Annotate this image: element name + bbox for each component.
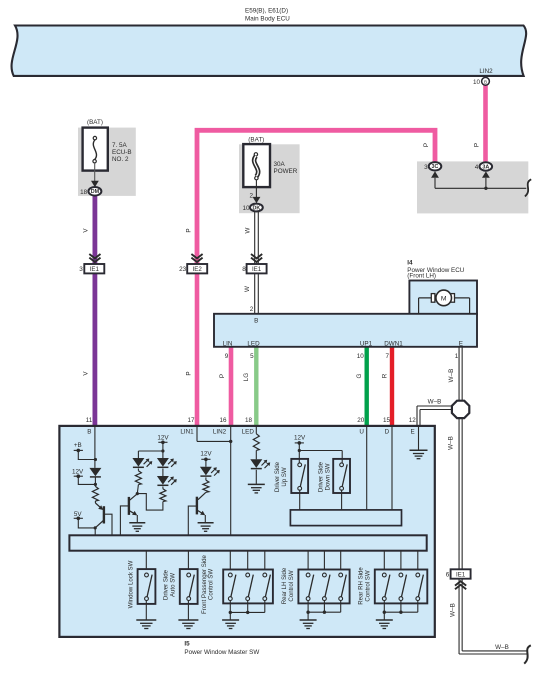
svg-text:17: 17	[187, 417, 195, 424]
svg-text:18: 18	[80, 189, 88, 196]
svg-text:B: B	[87, 428, 91, 435]
svg-text:3C: 3C	[432, 164, 439, 170]
svg-text:10: 10	[242, 205, 250, 212]
svg-text:P: P	[186, 371, 193, 375]
svg-text:P: P	[186, 228, 193, 232]
svg-text:12V: 12V	[200, 450, 212, 457]
svg-text:7: 7	[385, 353, 389, 360]
svg-text:E: E	[459, 340, 463, 347]
svg-text:DWN1: DWN1	[384, 340, 403, 347]
svg-text:LED: LED	[247, 340, 260, 347]
svg-text:POWER: POWER	[274, 168, 298, 175]
svg-text:LED: LED	[242, 429, 255, 436]
svg-text:W–B: W–B	[428, 398, 442, 405]
svg-text:(Front LH): (Front LH)	[407, 272, 436, 279]
svg-text:IE1: IE1	[252, 266, 262, 273]
svg-text:R: R	[381, 373, 388, 378]
svg-text:Auto SW: Auto SW	[169, 573, 176, 597]
svg-text:D: D	[385, 428, 390, 435]
svg-text:12V: 12V	[294, 435, 306, 442]
svg-text:Control SW: Control SW	[364, 570, 371, 601]
svg-text:E59(B), E61(D): E59(B), E61(D)	[245, 7, 288, 14]
svg-text:10: 10	[473, 79, 481, 86]
svg-text:I4: I4	[407, 260, 413, 267]
svg-text:10: 10	[357, 353, 365, 360]
svg-text:LIN1: LIN1	[180, 428, 194, 435]
svg-text:LIN2: LIN2	[479, 68, 493, 75]
svg-text:20: 20	[357, 417, 365, 424]
svg-text:I5: I5	[184, 640, 190, 647]
svg-text:LG: LG	[243, 373, 250, 382]
svg-text:(BAT): (BAT)	[87, 119, 103, 126]
svg-text:Main Body ECU: Main Body ECU	[245, 15, 290, 22]
svg-text:B: B	[254, 318, 258, 325]
svg-text:4: 4	[475, 164, 479, 171]
svg-text:LIN2: LIN2	[213, 428, 227, 435]
svg-text:Up SW: Up SW	[281, 467, 288, 487]
svg-text:W: W	[244, 227, 251, 233]
svg-text:3A: 3A	[482, 164, 489, 170]
svg-text:5: 5	[250, 353, 254, 360]
svg-text:1: 1	[455, 353, 459, 360]
svg-text:30A: 30A	[274, 161, 286, 168]
svg-text:12V: 12V	[157, 434, 169, 441]
svg-text:DM: DM	[91, 189, 100, 195]
svg-text:NO. 2: NO. 2	[112, 156, 129, 163]
svg-text:Control SW: Control SW	[288, 570, 295, 601]
svg-text:P: P	[474, 143, 481, 147]
svg-text:E: E	[410, 428, 414, 435]
svg-text:Window Lock SW: Window Lock SW	[127, 560, 134, 608]
svg-text:12V: 12V	[72, 468, 84, 475]
svg-text:9: 9	[225, 353, 229, 360]
svg-text:UP1: UP1	[360, 340, 373, 347]
svg-text:15: 15	[383, 417, 391, 424]
svg-text:ECU-B: ECU-B	[112, 149, 132, 156]
svg-text:P: P	[219, 374, 226, 378]
svg-text:P: P	[423, 143, 430, 147]
svg-text:W–B: W–B	[495, 644, 509, 651]
svg-text:IE1: IE1	[90, 266, 100, 273]
svg-text:2: 2	[250, 306, 254, 313]
svg-text:11: 11	[86, 417, 93, 424]
svg-text:Down SW: Down SW	[325, 463, 332, 490]
svg-text:3: 3	[79, 266, 83, 273]
svg-text:IE2: IE2	[193, 266, 203, 273]
svg-text:M: M	[441, 296, 447, 303]
svg-text:7. 5A: 7. 5A	[112, 142, 128, 149]
svg-text:+B: +B	[74, 442, 82, 449]
svg-text:16: 16	[219, 417, 227, 424]
svg-text:Control SW: Control SW	[208, 569, 215, 600]
svg-text:Power Window Master SW: Power Window Master SW	[184, 649, 259, 656]
svg-text:23: 23	[179, 266, 187, 273]
svg-text:LIN: LIN	[223, 340, 233, 347]
svg-text:W: W	[244, 286, 251, 292]
svg-text:W–B: W–B	[448, 369, 455, 383]
svg-text:8: 8	[242, 266, 246, 273]
svg-text:DK: DK	[253, 205, 261, 211]
svg-text:18: 18	[245, 417, 253, 424]
svg-text:12: 12	[409, 417, 417, 424]
svg-text:3: 3	[424, 164, 428, 171]
svg-text:2: 2	[249, 193, 253, 200]
svg-text:B: B	[484, 79, 487, 84]
svg-text:(BAT): (BAT)	[248, 136, 264, 143]
svg-text:6: 6	[446, 571, 450, 578]
svg-text:IE1: IE1	[456, 571, 466, 578]
svg-text:W–B: W–B	[448, 436, 455, 450]
svg-text:G: G	[356, 373, 363, 378]
svg-text:W–B: W–B	[449, 603, 456, 617]
svg-text:U: U	[359, 428, 364, 435]
